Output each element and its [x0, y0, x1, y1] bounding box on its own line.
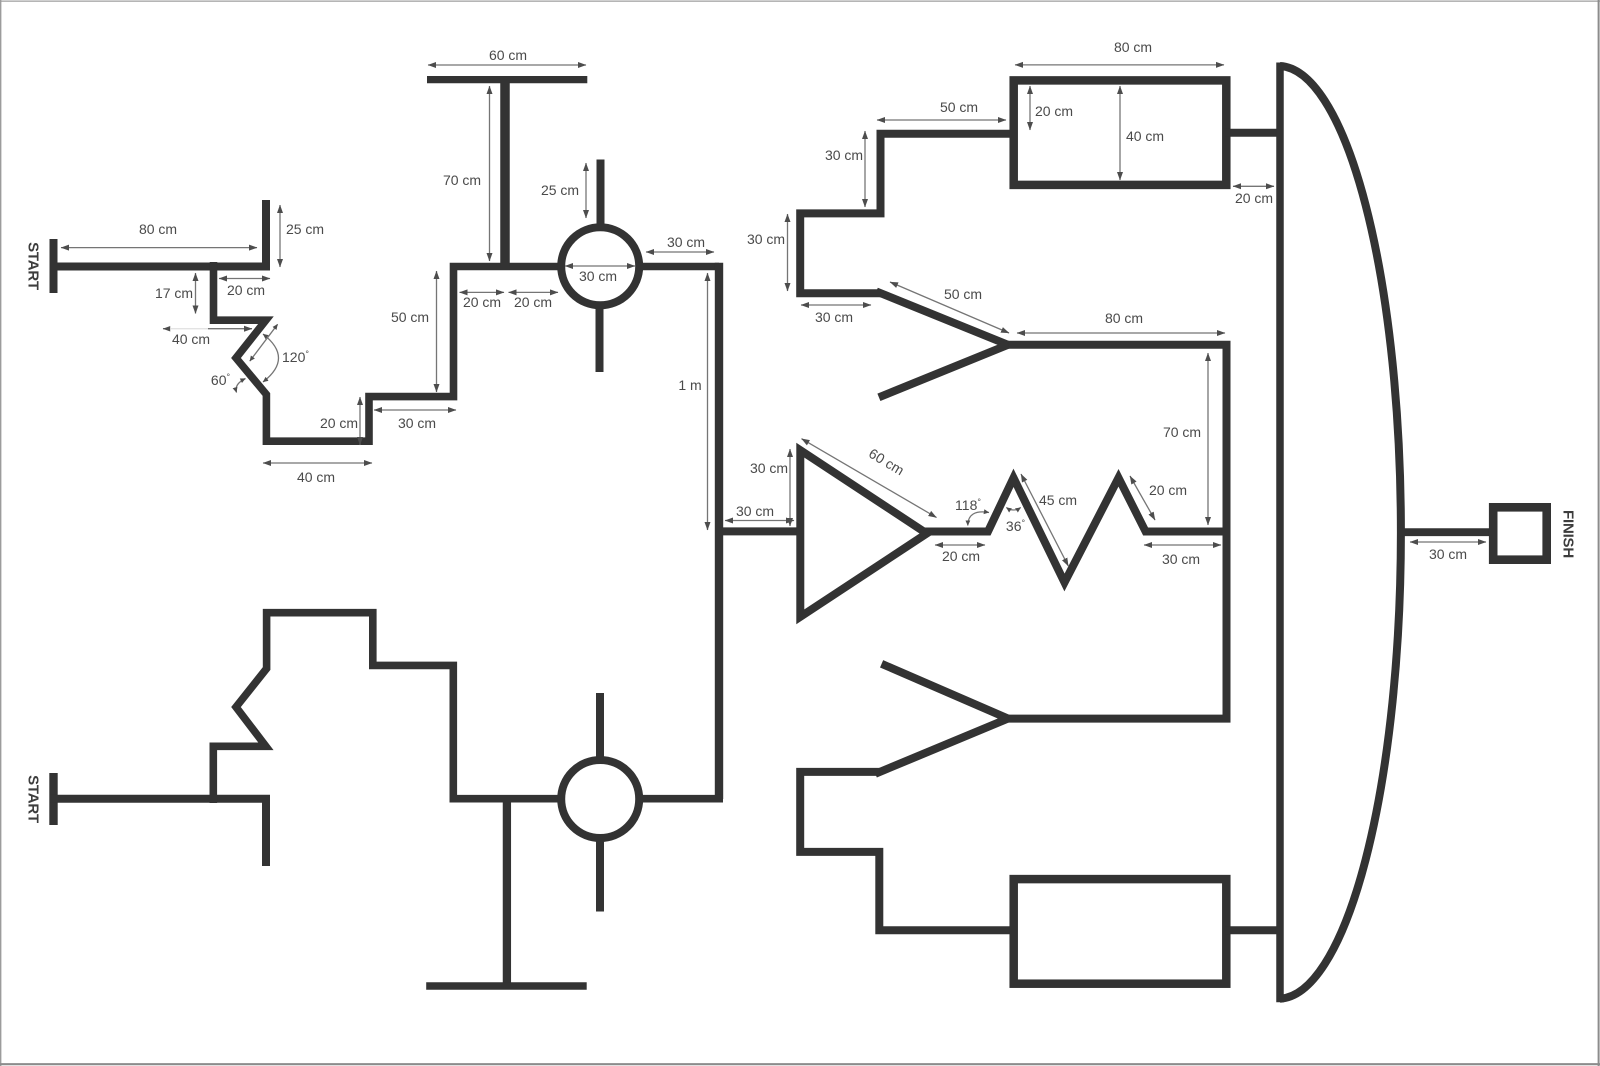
svg-text:30 cm: 30 cm: [1162, 551, 1200, 567]
dimension 1 m: [707, 273, 709, 530]
svg-text:25 cm: 25 cm: [286, 221, 324, 237]
dimension 40 cm rect1 inner: [1119, 86, 1121, 180]
svg-text:45 cm: 45 cm: [1039, 492, 1077, 508]
dimension 70 cm T1 stem: [489, 86, 491, 261]
wire start1 horizontal 80cm + 25cm stub up: [50, 200, 266, 267]
dimension arc 120 deg: [263, 334, 279, 382]
wire circle2 to 1m vertical: [638, 795, 723, 803]
svg-text:80 cm: 80 cm: [1114, 39, 1152, 55]
svg-text:40 cm: 40 cm: [1126, 128, 1164, 144]
svg-text:20 cm: 20 cm: [463, 294, 501, 310]
wire circle1 to corner 30cm: [638, 263, 719, 271]
dimension 17 cm: [195, 273, 197, 314]
dimension 80 cm fork1 horizontal: [1017, 332, 1225, 334]
obstacle rectangle 80x40 bottom: [1014, 879, 1227, 984]
dimension 30 cm triangle left: [789, 449, 791, 526]
dimension arc 60 deg: [236, 379, 245, 393]
dimension arc 118 deg: [968, 512, 989, 526]
svg-text:30 cm: 30 cm: [667, 234, 705, 250]
dimension diagonal arrow at 120: [250, 324, 278, 361]
dimension 20 cm before circle1: [460, 291, 505, 293]
wire circle2 stub down: [596, 837, 604, 912]
svg-text:30 cm: 30 cm: [736, 503, 774, 519]
dimension 20 cm zigzag right diagonal: [1130, 476, 1155, 520]
wire fork2 free diagonal: [882, 664, 1008, 719]
svg-text:20 cm: 20 cm: [320, 415, 358, 431]
wire 1m vertical: [715, 263, 723, 799]
svg-text:30 cm: 30 cm: [398, 415, 436, 431]
wire branch1: 17cm down, 20cm right, zigzag 120/60, 40cm base, steps to 50cm vertical: [214, 262, 563, 441]
dimension 30 cm staircase1 step v: [864, 131, 866, 207]
svg-text:70 cm: 70 cm: [1163, 424, 1201, 440]
svg-text:1 m: 1 m: [678, 377, 701, 393]
svg-text:30 cm: 30 cm: [750, 460, 788, 476]
wire circle1 stub down: [596, 302, 604, 373]
svg-text:20 cm: 20 cm: [514, 294, 552, 310]
dimension 45 cm zigzag diagonal: [1021, 474, 1068, 566]
svg-text:70 cm: 70 cm: [443, 172, 481, 188]
dimension 30 cm circle1 diameter: [565, 265, 635, 267]
wire staircase1 30/30/50: [800, 134, 1015, 294]
wire T1 bar 60cm: [427, 76, 587, 83]
svg-text:25 cm: 25 cm: [541, 182, 579, 198]
dimension 50 cm staircase1 top h: [877, 119, 1006, 121]
obstacle triangle 60cm: [800, 450, 927, 617]
svg-text:30 cm: 30 cm: [579, 268, 617, 284]
node circle 2: [561, 760, 639, 838]
dimension 40 cm zigzag top: [163, 328, 252, 330]
wire right frame: 80cm top, 70cm vertical, 80cm bottom: [1008, 345, 1227, 719]
obstacle rectangle 80x40 top: [1014, 80, 1227, 184]
svg-text:50 cm: 50 cm: [391, 309, 429, 325]
wire rect1 to D connector 20cm: [1225, 129, 1280, 137]
dimension 30 cm step h: [374, 409, 456, 411]
svg-text:30 cm: 30 cm: [1429, 546, 1467, 562]
wire big D elliptical arc: [1280, 66, 1401, 999]
start marker bar 1: [50, 239, 58, 293]
wire fork2 lower diagonal 50cm: [875, 719, 1008, 774]
dimension 40 cm base: [263, 462, 372, 464]
faded artifact over 40cm dim line: [170, 323, 208, 334]
dimension 30 cm finish: [1410, 541, 1486, 543]
wire start2 horizontal + stub down: [50, 799, 266, 866]
wire zigzag 118/36 with 20cm and 30cm flats: [924, 478, 1227, 583]
dimension 20 cm zigzag flat left: [935, 544, 985, 546]
dimension 70 cm right vertical: [1207, 353, 1209, 525]
wire circle1 stub up 25cm: [597, 160, 605, 232]
svg-text:30 cm: 30 cm: [815, 309, 853, 325]
wire fork1 upper diagonal 50cm: [876, 291, 1008, 344]
dimension 30 cm staircase1 bottom h: [801, 304, 871, 306]
dimension 80 cm rect1: [1015, 64, 1224, 66]
dimension 80 cm start1: [61, 247, 257, 249]
dimension 60 cm T1: [428, 64, 586, 66]
svg-text:80 cm: 80 cm: [139, 221, 177, 237]
svg-text:30 cm: 30 cm: [825, 147, 863, 163]
dimension 20 cm rect1 inner: [1029, 86, 1031, 130]
dimension 20 cm step v: [359, 397, 361, 445]
svg-text:30 cm: 30 cm: [747, 231, 785, 247]
svg-text:60 cm: 60 cm: [489, 47, 527, 63]
wire rect2 to D connector: [1225, 926, 1280, 934]
svg-text:20 cm: 20 cm: [1035, 103, 1073, 119]
svg-text:50 cm: 50 cm: [944, 286, 982, 302]
dimension 25 cm stub: [279, 205, 281, 267]
svg-text:START: START: [25, 775, 42, 823]
dimension arc 36 deg: [1006, 508, 1020, 511]
wire corner to triangle 30cm: [719, 527, 797, 535]
wire finish line 30cm: [1402, 528, 1491, 536]
dimension 50 cm fork1 diagonal: [890, 282, 1009, 333]
svg-text:80 cm: 80 cm: [1105, 310, 1143, 326]
wire circle2 stub up: [596, 693, 604, 764]
wire branch2: up, zigzag mirror, steps to vertical joining circle2 line: [213, 613, 562, 803]
dimension 20 cm rect1 to D: [1233, 185, 1274, 187]
node circle 1 (30 cm): [561, 227, 639, 305]
dimension 25 cm circle1 stub: [585, 163, 587, 218]
wire staircase2 30/30/50: [800, 772, 1015, 930]
dimension 30 cm zigzag flat right: [1144, 544, 1221, 546]
svg-text:50 cm: 50 cm: [940, 99, 978, 115]
svg-text:17 cm: 17 cm: [155, 285, 193, 301]
finish square: [1493, 507, 1547, 559]
dimension 50 cm vertical: [436, 271, 438, 392]
svg-text:20 cm: 20 cm: [1149, 482, 1187, 498]
dimension 30 cm staircase1 left v: [787, 214, 789, 291]
dimension 20 cm before circle1 b: [509, 291, 559, 293]
dimension 20 cm below start1: [219, 278, 270, 280]
wire fork1 free diagonal: [879, 345, 1008, 398]
dimension 30 cm before triangle: [725, 520, 794, 522]
svg-text:20 cm: 20 cm: [1235, 190, 1273, 206]
start marker bar 2: [49, 773, 57, 825]
wire T2 stem: [503, 802, 511, 983]
svg-text:20 cm: 20 cm: [942, 548, 980, 564]
wire T2 bar: [426, 982, 587, 989]
svg-text:40 cm: 40 cm: [297, 469, 335, 485]
svg-text:20 cm: 20 cm: [227, 282, 265, 298]
dimension 60 cm triangle diagonal: [802, 439, 937, 518]
svg-text:40 cm: 40 cm: [172, 331, 210, 347]
svg-text:START: START: [25, 242, 42, 290]
svg-text:120°: 120°: [282, 349, 309, 365]
wire big D vertical: [1276, 63, 1284, 1003]
dimension 30 cm right of circle1: [646, 251, 714, 253]
svg-text:FINISH: FINISH: [1560, 510, 1577, 558]
wire T1 stem 70cm: [500, 83, 510, 267]
